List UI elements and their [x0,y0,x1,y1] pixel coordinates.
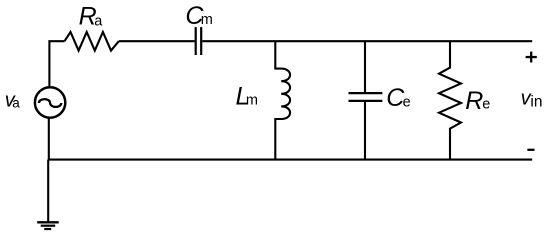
svg-text:m: m [246,93,258,109]
svg-text:m: m [201,12,213,28]
svg-text:in: in [530,93,542,110]
svg-text:a: a [94,13,103,29]
svg-text:R: R [465,87,483,115]
svg-text:e: e [403,94,411,110]
svg-text:a: a [12,95,20,110]
svg-text:e: e [482,97,490,113]
